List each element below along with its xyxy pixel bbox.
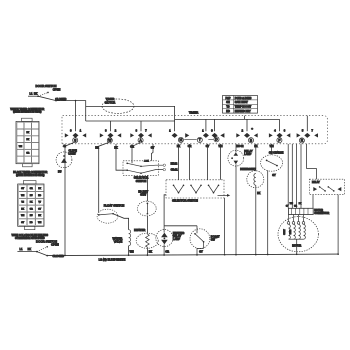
wire riser contact 9: [306, 116, 308, 132]
svg-text:HEATED DRY: HEATED DRY: [235, 110, 251, 113]
svg-text:ON CHARGE: ON CHARGE: [269, 152, 284, 155]
svg-text:OPEN: OPEN: [51, 243, 59, 247]
wire relay to neutral: [337, 195, 339, 255]
motor connector: [289, 208, 330, 215]
timer contact 7: [269, 129, 290, 142]
svg-text:TIMER: TIMER: [189, 111, 199, 115]
timer contact 4: [169, 129, 183, 142]
wire selector B inputs: [179, 144, 221, 180]
timer contact 6: [236, 127, 257, 143]
relay K1: [309, 179, 344, 194]
svg-text:LAMP: LAMP: [173, 237, 180, 241]
svg-text:P&P: P&P: [225, 97, 230, 100]
door switch S2 (bottom): [17, 240, 64, 258]
svg-text:A-21: A-21: [144, 160, 149, 163]
svg-text:MOTOR: MOTOR: [314, 210, 323, 212]
bus wire 2: [175, 116, 280, 132]
svg-text:DETERGENT: DETERGENT: [240, 168, 256, 171]
svg-text:VALVE: VALVE: [114, 240, 123, 244]
svg-text:OR: OR: [165, 250, 169, 253]
delay lamp: [228, 144, 253, 255]
detergent dispenser solenoid: [240, 144, 264, 255]
svg-text:MOTOR: MOTOR: [105, 100, 115, 104]
svg-text:LIGHT: LIGHT: [69, 153, 77, 156]
svg-text:OPEN: OPEN: [53, 87, 61, 91]
black timer connector: [13, 170, 47, 230]
wire contact 4 feed: [174, 106, 176, 131]
float switch: [97, 204, 129, 230]
timer box (dashed): [62, 111, 327, 144]
wire thermostat feed: [146, 175, 148, 201]
wire selector A input 1: [116, 144, 127, 170]
bus wire 1: [86, 121, 175, 131]
svg-text:WH: WH: [130, 250, 134, 253]
timer contact 5 (double): [184, 129, 224, 142]
svg-text:FLOAT SWITCH: FLOAT SWITCH: [104, 204, 125, 208]
door switch S1 (top): [28, 84, 66, 101]
wire contact2 drop: [99, 143, 109, 213]
svg-text:+: +: [251, 127, 253, 131]
svg-text:CONNECTOR: CONNECTOR: [314, 213, 329, 215]
motor supply wires: [286, 144, 302, 208]
wire labels below timer: [63, 145, 274, 150]
wire relay feed: [307, 144, 317, 179]
note wire colors: [12, 233, 49, 240]
svg-text:RELAY: RELAY: [312, 181, 320, 184]
svg-text:L2 (N) BLUE-WHITE: L2 (N) BLUE-WHITE: [99, 257, 126, 261]
svg-text:OTHERWISE SPECIFIED: OTHERWISE SPECIFIED: [15, 236, 45, 240]
selector switch A: [123, 160, 178, 183]
heater element: [134, 216, 158, 255]
svg-text:BK: BK: [34, 92, 38, 96]
water valve solenoid: [113, 230, 134, 255]
svg-text:CLOSED: CLOSED: [52, 254, 64, 258]
svg-text:GY: GY: [272, 175, 276, 177]
wire selector A input 2: [132, 143, 140, 163]
clean light lamp: [56, 150, 77, 174]
svg-text:SANI HEAT: SANI HEAT: [235, 101, 248, 104]
svg-text:STAT: STAT: [140, 193, 146, 196]
timer contact 1: [65, 129, 86, 142]
white timer connector: [10, 107, 44, 167]
svg-text:(WIRE INSERTION SIDE): (WIRE INSERTION SIDE): [16, 174, 44, 177]
svg-text:F: F: [278, 138, 280, 142]
svg-text:BK-22: BK-22: [171, 162, 178, 165]
svg-text:BU: BU: [58, 171, 62, 174]
svg-text:GY: GY: [199, 250, 203, 253]
svg-text:OR-21: OR-21: [171, 169, 179, 172]
rinse dispenser (on charge): [261, 144, 284, 255]
svg-text:HD: HD: [226, 110, 230, 113]
legend table: [223, 96, 258, 114]
svg-text:DOOR SWITCH: DOOR SWITCH: [36, 84, 57, 88]
selector switch B: [166, 180, 230, 254]
wire contact1 drop: [65, 143, 74, 255]
svg-text:BK: BK: [149, 250, 153, 253]
drive motor: [278, 215, 318, 255]
svg-text:NO 32: NO 32: [237, 145, 245, 148]
svg-text:TEMP BOOST: TEMP BOOST: [235, 106, 252, 109]
neutral bus L2: [47, 253, 339, 261]
wire riser contact 1: [75, 101, 77, 132]
wire selector A input 3: [151, 144, 153, 161]
wire selector B left drop: [164, 195, 197, 226]
timer contact 8: [297, 129, 318, 143]
svg-text:HEATER: HEATER: [134, 228, 145, 232]
svg-text:MOTOR: MOTOR: [292, 244, 301, 247]
svg-text:SW: SW: [211, 239, 216, 242]
timer contact 3: [130, 129, 151, 142]
svg-text:SELECTOR SWITCH: SELECTOR SWITCH: [172, 198, 198, 202]
svg-text:SH: SH: [226, 101, 230, 104]
svg-text:BK: BK: [28, 247, 32, 251]
heating delay lamp: [156, 226, 184, 255]
timer contact 2: [100, 129, 121, 142]
svg-text:SWITCH: SWITCH: [136, 179, 147, 183]
hi-limit thermostat: [137, 190, 156, 216]
svg-text:BK: BK: [257, 192, 261, 195]
svg-text:POTS & PANS: POTS & PANS: [235, 97, 252, 100]
svg-text:TB: TB: [226, 106, 230, 109]
svg-text:LAMP: LAMP: [244, 152, 251, 156]
svg-text:(WIRE INSERTION SIDE): (WIRE INSERTION SIDE): [13, 111, 41, 114]
svg-text:T: T: [199, 138, 201, 142]
wire L1 node to timer: [56, 100, 86, 121]
wire relay to connector: [312, 195, 314, 209]
svg-text:START: START: [283, 229, 286, 234]
svg-text:BK: BK: [254, 145, 258, 148]
boost thermostat: [190, 226, 220, 255]
timer motor M1: [86, 97, 175, 113]
svg-text:M: M: [180, 138, 183, 142]
